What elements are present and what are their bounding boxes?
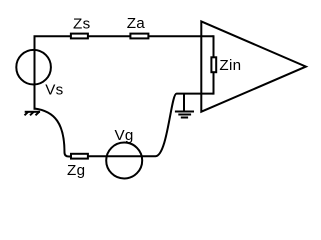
svg-text:Zg: Zg — [67, 162, 85, 179]
svg-text:Za: Za — [127, 15, 146, 32]
svg-text:Vg: Vg — [115, 127, 134, 144]
svg-text:Zs: Zs — [73, 15, 91, 32]
svg-text:Vs: Vs — [45, 81, 63, 98]
svg-text:Zin: Zin — [219, 57, 241, 74]
